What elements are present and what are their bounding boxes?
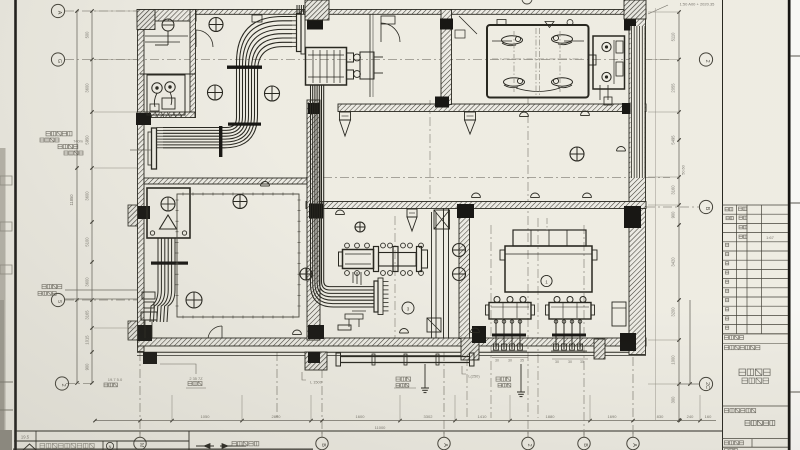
bus duct assembly bottom middle — [339, 243, 428, 285]
terminal comb strip — [374, 278, 389, 315]
column blocks — [128, 0, 646, 370]
wall top-left room right x190 — [190, 10, 196, 118]
grid bubble axis A left top — [51, 4, 64, 17]
cable tie bar B4 — [151, 262, 188, 265]
door arc corridor left — [381, 23, 400, 42]
scan edge tabs left — [0, 176, 13, 410]
HV panel top right room — [589, 36, 625, 105]
cable tie bar B1 lower — [228, 123, 261, 126]
scale note top right — [648, 2, 715, 15]
breaker unit 1 — [486, 297, 535, 352]
title block lower cells and stamps — [723, 334, 789, 450]
wall horizontal y104 upper mid — [338, 104, 646, 112]
transformer unit bottom right room — [500, 218, 597, 292]
wall vertical center x307-321 — [307, 100, 320, 340]
wall sconces bottom wall — [400, 328, 480, 333]
cable tie bar B1 vertical — [219, 126, 222, 157]
note 2.35m — [160, 364, 206, 388]
bottom dimension line — [93, 395, 716, 430]
scan edge left band — [0, 148, 12, 450]
cable bundle B3 riser to comb — [311, 85, 375, 307]
title block revision table — [723, 205, 789, 334]
hopper symbol right — [465, 112, 476, 134]
wall vertical x459 lower room — [459, 209, 470, 339]
wall mid-left horizontal A — [144, 178, 307, 184]
legend table bottom left — [14, 431, 189, 450]
switchgear unit top middle — [306, 48, 384, 86]
cable tie bar B1 upper — [227, 66, 262, 69]
right vertical dimension line — [671, 10, 700, 421]
grid bubble axis 2C right bottom — [699, 377, 712, 390]
grid bubbles bottom row — [134, 431, 639, 450]
comb base detail — [338, 311, 366, 330]
left vertical dimension lines — [69, 9, 94, 384]
grid bubble axis 5 left — [51, 290, 140, 307]
grid bubble cut top 2 — [522, 0, 532, 4]
grid bubble axis G left — [51, 53, 64, 66]
wall top exterior — [137, 10, 646, 22]
keynote circle small — [402, 302, 414, 314]
grid bubble axis 2 right top — [699, 53, 712, 66]
dims under breaker 1 — [492, 358, 528, 363]
partition x431 thin — [432, 212, 437, 338]
grid bubble axis B right — [699, 200, 712, 213]
junction boxes B4 — [141, 292, 157, 338]
hopper symbol wall B — [407, 209, 417, 231]
transformer enclosure top right — [487, 20, 589, 98]
drawing frame left border — [14, 0, 17, 450]
drawing frame bottom line — [16, 430, 722, 432]
elevator shaft box with symbols — [147, 188, 190, 238]
breaker unit 2 — [546, 297, 595, 352]
note left margin block — [40, 132, 151, 156]
wall bottom exterior — [138, 338, 647, 346]
grid centerlines vertical — [140, 97, 646, 437]
bus duct below wall — [336, 318, 474, 366]
cable bundle B2 riser stub — [297, 5, 304, 14]
wall sconces on wall B — [261, 182, 592, 215]
cable bundle B1 panel to riser comb — [163, 11, 305, 148]
wall left exterior — [138, 10, 145, 352]
dims under breaker 2 — [552, 359, 588, 364]
ground symbol 1 — [421, 364, 429, 393]
wall right exterior — [629, 10, 646, 355]
note L250 — [462, 366, 480, 379]
small cabinet x370 wall line — [252, 14, 395, 97]
room top-left fixtures — [140, 19, 195, 118]
riser lines right wall — [631, 26, 646, 178]
door X brace partition — [434, 210, 450, 229]
wall sconces top middle room — [520, 111, 626, 151]
grid bubble cut top 1 — [312, 0, 324, 5]
grid centerlines horizontal — [65, 11, 699, 384]
anchor cross circles upper rooms — [208, 18, 585, 281]
cable bundle B4 below elevator — [150, 238, 175, 322]
door arc bottom wall left room — [208, 326, 302, 338]
ground symbol 2 — [517, 364, 525, 397]
wall stub right — [612, 302, 626, 326]
wall mid-right horizontal B — [306, 202, 646, 209]
wall vertical x441 upper — [441, 10, 452, 105]
wall top-left room bottom — [137, 112, 195, 118]
distribution panel left wall — [148, 128, 163, 170]
floor trench outline bottom-left room — [176, 193, 301, 319]
title block frame — [723, 0, 800, 450]
hopper symbol left — [340, 112, 351, 136]
dimension extension lines — [94, 8, 679, 420]
note 2.3E — [496, 377, 511, 387]
wall bottom lower line — [137, 352, 646, 355]
door swing corridor — [455, 16, 477, 38]
scan edge bottom dark strip — [13, 448, 313, 450]
note near bubble5 — [38, 285, 62, 296]
partition x443 thin — [444, 208, 449, 338]
hatch column x594 — [594, 339, 605, 359]
anchor cross circles left room — [186, 195, 247, 309]
note 3.0k — [394, 377, 416, 388]
note L1500 — [302, 372, 323, 385]
grid bubble axis 2 left bottom — [55, 377, 123, 390]
legend arrow symbol — [196, 442, 259, 449]
door arc top-left room — [196, 30, 213, 47]
